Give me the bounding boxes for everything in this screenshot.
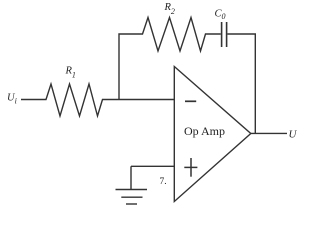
svg-text:Ui: Ui: [7, 93, 17, 106]
svg-text:7.: 7.: [160, 177, 167, 187]
svg-text:U: U: [289, 129, 298, 141]
svg-text:Op Amp: Op Amp: [184, 124, 225, 138]
svg-text:R2: R2: [164, 2, 175, 16]
svg-text:C0: C0: [215, 9, 226, 22]
svg-text:R1: R1: [65, 66, 76, 80]
